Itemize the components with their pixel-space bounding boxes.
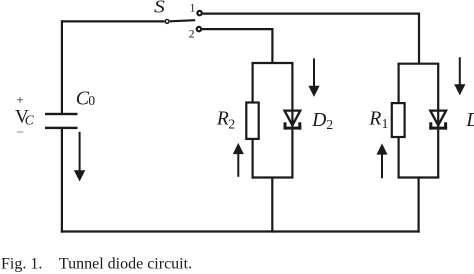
- svg-text:2: 2: [228, 116, 235, 131]
- svg-text:Tunnel diode circuit.: Tunnel diode circuit.: [59, 255, 192, 272]
- switch S arm: [170, 20, 195, 21]
- wire: [61, 230, 420, 232]
- switch contact 2: [197, 27, 201, 31]
- switch S pivot: [165, 20, 169, 24]
- wire: [418, 178, 420, 233]
- svg-text:S: S: [154, 0, 165, 16]
- resistor R2: [246, 103, 258, 139]
- svg-text:0: 0: [88, 93, 95, 108]
- node VC minus sign: [17, 131, 23, 133]
- wire: [252, 62, 294, 64]
- current arrow (through D1, down): [454, 57, 465, 95]
- wire: [252, 176, 294, 178]
- wire: [62, 20, 164, 22]
- svg-text:Fig. 1.: Fig. 1.: [1, 255, 42, 272]
- svg-text:1: 1: [190, 2, 196, 14]
- wire: [398, 63, 440, 65]
- wire: [398, 64, 400, 104]
- wire: [271, 178, 273, 233]
- wire: [291, 63, 293, 127]
- svg-text:R: R: [216, 108, 229, 129]
- wire: [202, 29, 272, 63]
- tunnel diode D2: [284, 111, 302, 130]
- svg-text:R: R: [368, 109, 381, 130]
- wire: [398, 137, 400, 178]
- svg-text:1: 1: [382, 116, 389, 131]
- wire: [398, 176, 440, 178]
- wire: [437, 130, 439, 178]
- current arrow (capacitor discharge, down): [74, 132, 85, 182]
- svg-text:D: D: [465, 110, 474, 131]
- current arrow (through R1, up): [377, 143, 388, 178]
- resistor R1: [392, 103, 405, 137]
- current arrow (through D2, down): [308, 58, 319, 97]
- svg-text:C: C: [25, 112, 35, 127]
- current arrow (through R2, up): [233, 143, 244, 177]
- wire: [203, 14, 419, 64]
- svg-text:2: 2: [189, 29, 195, 41]
- wire: [61, 129, 63, 233]
- wire: [61, 20, 63, 113]
- svg-text:+: +: [16, 92, 23, 107]
- wire: [291, 130, 293, 178]
- switch contact 1: [197, 11, 201, 15]
- wire: [252, 139, 254, 178]
- capacitor C0: [45, 113, 78, 129]
- svg-text:D: D: [311, 110, 326, 131]
- svg-text:2: 2: [326, 117, 333, 132]
- wire: [437, 64, 439, 127]
- tunnel diode D1: [429, 111, 447, 130]
- wire: [252, 63, 254, 103]
